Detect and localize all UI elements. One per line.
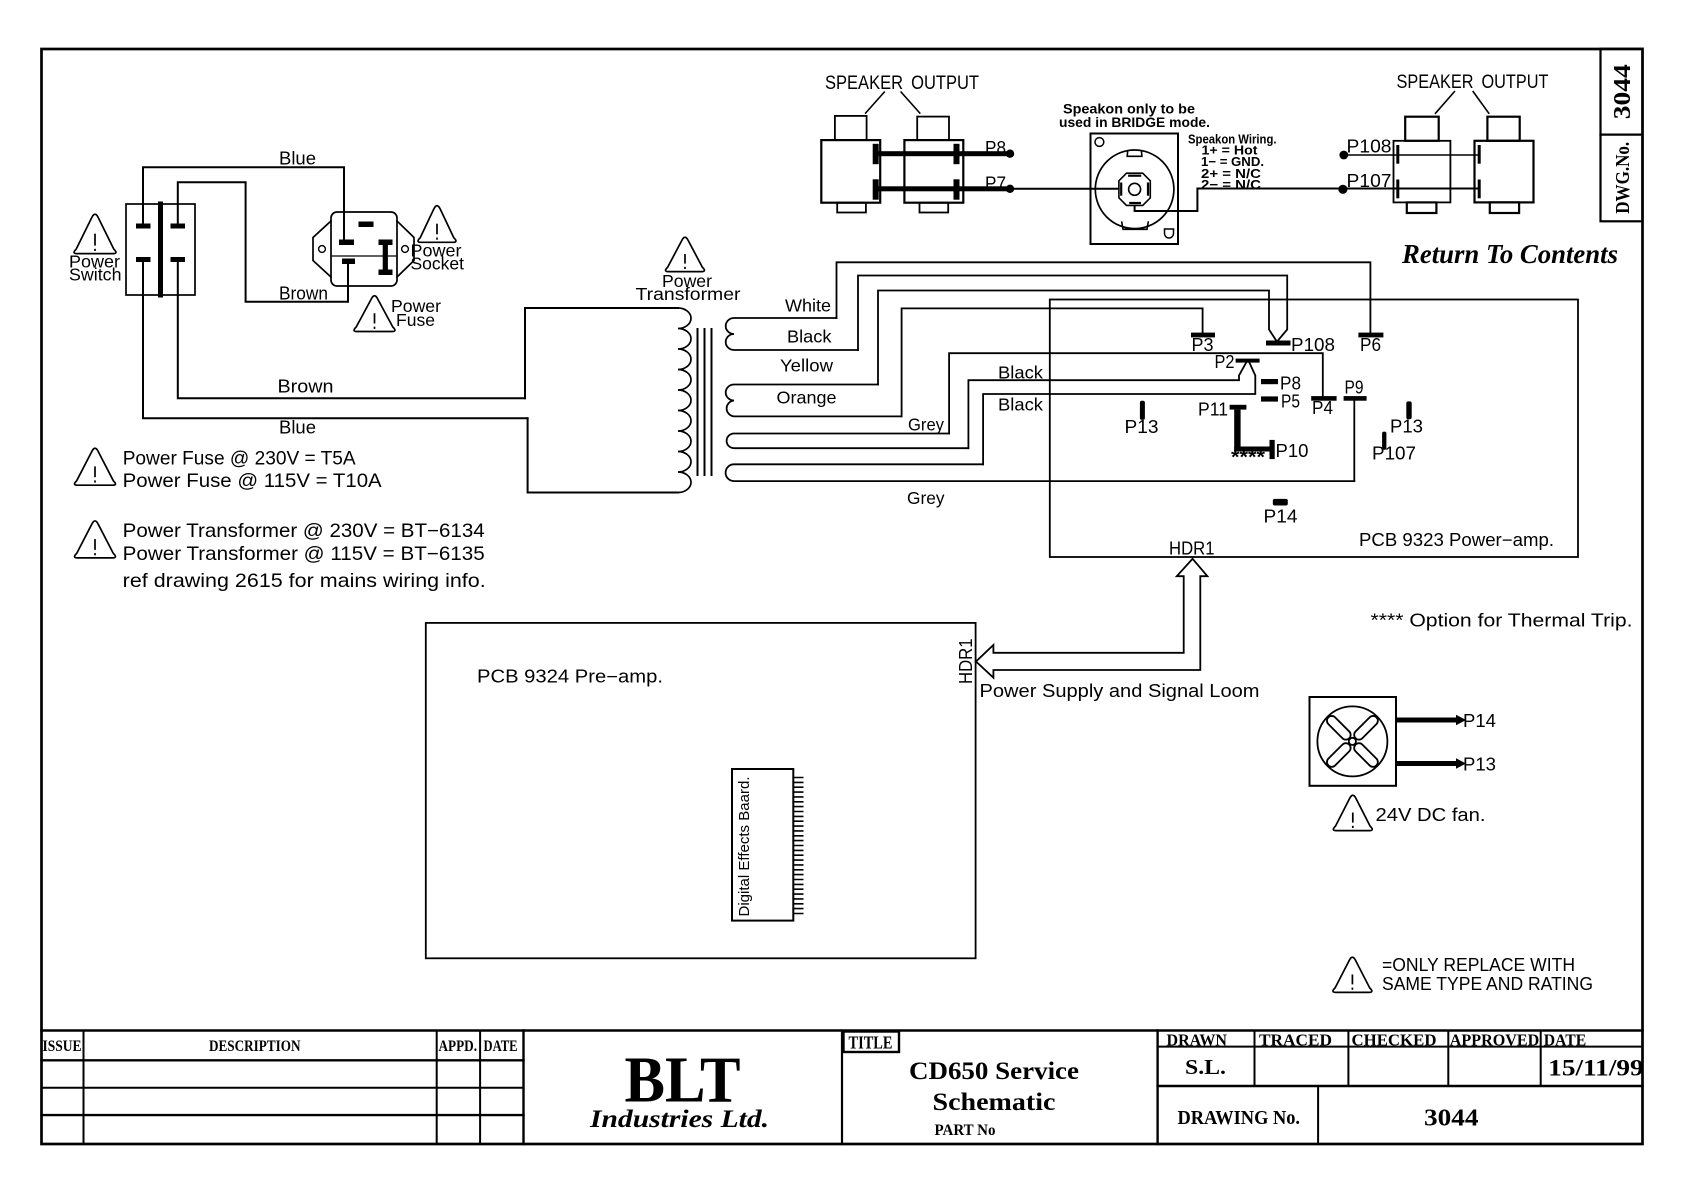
wire Orange to P3 <box>902 308 1203 416</box>
wire P7 to speakon <box>1014 188 1119 190</box>
wire Black to P2 left <box>968 363 1246 448</box>
title block <box>42 1031 1643 1145</box>
wire Black to P2 right <box>983 363 1255 465</box>
primary coil <box>678 308 691 493</box>
fan wire P14 <box>1396 715 1466 725</box>
svg-text:TITLE: TITLE <box>849 1033 893 1053</box>
svg-text:Power Supply and Signal Loom: Power Supply and Signal Loom <box>980 681 1260 701</box>
svg-text:ref drawing 2615 for mains wir: ref drawing 2615 for mains wiring info. <box>123 570 486 592</box>
svg-text:P11: P11 <box>1198 400 1228 420</box>
secondary winding 3 <box>727 434 969 449</box>
svg-text:Orange: Orange <box>777 388 837 408</box>
svg-text:Black: Black <box>787 327 832 347</box>
svg-text:DRAWN: DRAWN <box>1167 1031 1228 1050</box>
svg-text:P2: P2 <box>1215 352 1235 372</box>
svg-text:=ONLY REPLACE WITH: =ONLY REPLACE WITH <box>1382 954 1575 975</box>
jack J2 <box>904 117 963 213</box>
svg-text:Fuse: Fuse <box>396 310 435 330</box>
svg-text:P8: P8 <box>1280 374 1301 394</box>
svg-text:DATE: DATE <box>484 1038 518 1055</box>
power socket <box>313 212 414 286</box>
wire Grey to P9 <box>1353 399 1355 481</box>
svg-text:SPEAKER OUTPUT: SPEAKER OUTPUT <box>825 73 979 94</box>
TITLE box <box>844 1032 900 1053</box>
jack J3 <box>1394 117 1451 213</box>
warning triangle power socket <box>418 206 456 243</box>
svg-text:Switch: Switch <box>69 265 122 285</box>
svg-text:Return To Contents: Return To Contents <box>1401 239 1618 269</box>
svg-text:DESCRIPTION: DESCRIPTION <box>209 1038 301 1055</box>
wire Blue switch-socket <box>143 167 344 240</box>
svg-text:DWG.No.: DWG.No. <box>1613 142 1634 214</box>
svg-text:15/11/99: 15/11/99 <box>1548 1056 1644 1081</box>
svg-text:PCB 9323 Power−amp.: PCB 9323 Power−amp. <box>1359 530 1554 550</box>
svg-text:P6: P6 <box>1360 335 1381 355</box>
connector P3 <box>1191 333 1215 338</box>
leader lines right <box>1435 91 1489 114</box>
secondary winding 1 <box>726 318 858 350</box>
svg-text:APPROVED: APPROVED <box>1450 1031 1540 1050</box>
wire speakon to P107 <box>1135 189 1480 212</box>
wire Blue switch-transformer <box>143 262 528 418</box>
svg-text:HDR1: HDR1 <box>1169 539 1215 559</box>
wire Brown switch-fuse <box>178 182 348 301</box>
svg-text:P10: P10 <box>1276 441 1309 461</box>
jack J1 <box>821 116 880 213</box>
svg-text:Brown: Brown <box>279 283 328 304</box>
svg-text:Digital Effects Baard.: Digital Effects Baard. <box>737 777 753 917</box>
fan wire P13 <box>1396 758 1466 768</box>
svg-text:SAME TYPE AND RATING: SAME TYPE AND RATING <box>1382 973 1593 994</box>
svg-text:APPD.: APPD. <box>439 1038 478 1055</box>
connector P11 <box>1230 405 1247 410</box>
svg-text:Schematic: Schematic <box>933 1089 1056 1116</box>
svg-text:P108: P108 <box>1291 335 1335 355</box>
PCB 9324 pre-amp board <box>426 623 976 958</box>
power switch <box>126 204 195 295</box>
svg-text:P13: P13 <box>1125 417 1159 437</box>
svg-text:P9: P9 <box>1345 378 1364 398</box>
svg-text:P7: P7 <box>985 174 1006 194</box>
svg-text:Black: Black <box>998 395 1043 415</box>
connector P108 <box>1266 341 1291 346</box>
svg-text:Blue: Blue <box>279 148 316 169</box>
svg-text:ISSUE: ISSUE <box>43 1038 82 1055</box>
connector P13 tick right <box>1406 401 1411 419</box>
svg-text:Power Fuse @ 115V = T10A: Power Fuse @ 115V = T10A <box>123 470 382 492</box>
svg-text:used in BRIDGE mode.: used in BRIDGE mode. <box>1059 115 1210 130</box>
svg-text:Grey: Grey <box>908 415 944 435</box>
svg-text:****: **** <box>1231 448 1266 469</box>
connector P10 <box>1270 440 1275 459</box>
svg-text:Socket: Socket <box>411 254 465 274</box>
terminal bars J1 <box>873 144 879 164</box>
transformer core <box>697 329 699 475</box>
svg-text:P4: P4 <box>1312 398 1333 418</box>
svg-text:Power Transformer @ 115V = BT−: Power Transformer @ 115V = BT−6135 <box>123 543 485 565</box>
transformer primary <box>525 308 678 398</box>
DWG.No. box <box>1601 49 1643 222</box>
svg-text:Yellow: Yellow <box>780 356 833 376</box>
svg-text:Blue: Blue <box>279 417 316 438</box>
svg-text:P5: P5 <box>1281 392 1300 412</box>
bus P7 <box>875 186 1008 191</box>
warning triangle transformer note <box>75 521 116 558</box>
PCB 9323 power-amp board <box>1050 300 1578 558</box>
bus P8 <box>875 151 1008 156</box>
connector P4 <box>1311 396 1336 401</box>
connector P107 tick <box>1382 432 1386 450</box>
svg-text:Grey: Grey <box>907 488 945 508</box>
wire Brown switch-transformer <box>178 262 525 398</box>
secondary winding 2 <box>726 385 902 417</box>
svg-text:Power Fuse @ 230V = T5A: Power Fuse @ 230V = T5A <box>123 448 356 470</box>
svg-text:HDR1: HDR1 <box>956 639 976 685</box>
warning triangle power switch <box>74 214 116 253</box>
svg-text:P14: P14 <box>1463 711 1496 731</box>
wire Grey to P4 <box>949 353 1323 433</box>
wire Yellow to P108 right <box>878 291 1277 385</box>
wire White to P6 <box>837 262 1371 332</box>
svg-text:P107: P107 <box>1347 171 1392 191</box>
digital effects board <box>732 769 804 921</box>
svg-text:White: White <box>785 296 831 316</box>
wire P108 <box>1344 154 1479 156</box>
secondary winding 4 <box>726 464 1355 481</box>
jack J4 <box>1475 117 1534 213</box>
svg-text:24V DC fan.: 24V DC fan. <box>1376 804 1486 825</box>
connector P13 tick left <box>1140 401 1145 420</box>
svg-text:3044: 3044 <box>1610 64 1636 119</box>
junction dots P108 P107 <box>1338 151 1348 194</box>
svg-text:P14: P14 <box>1264 507 1298 527</box>
connector P14 <box>1273 499 1288 506</box>
warning triangle fuse note <box>75 448 116 485</box>
leader lines left <box>865 92 920 114</box>
warning triangle power fuse <box>354 296 395 332</box>
svg-text:Power Transformer @ 230V = BT−: Power Transformer @ 230V = BT−6134 <box>123 520 485 542</box>
svg-text:CHECKED: CHECKED <box>1352 1031 1437 1050</box>
svg-text:TRACED: TRACED <box>1259 1031 1332 1050</box>
svg-text:PCB 9324 Pre−amp.: PCB 9324 Pre−amp. <box>477 667 663 687</box>
connector P9 <box>1344 396 1367 401</box>
svg-text:SPEAKER OUTPUT: SPEAKER OUTPUT <box>1397 72 1549 93</box>
svg-text:3044: 3044 <box>1424 1106 1479 1132</box>
connector P8b <box>1261 379 1278 384</box>
svg-text:2− = N/C: 2− = N/C <box>1201 177 1262 192</box>
terminal bars J3 J4 <box>1398 145 1479 198</box>
loom arrow <box>976 559 1207 678</box>
svg-text:P3: P3 <box>1192 335 1214 355</box>
terminal bars J2 <box>954 144 960 164</box>
svg-text:P108: P108 <box>1347 137 1392 157</box>
svg-text:Brown: Brown <box>278 376 334 397</box>
svg-text:**** Option for Thermal Trip.: **** Option for Thermal Trip. <box>1371 611 1633 631</box>
svg-text:P8: P8 <box>985 138 1006 158</box>
warning triangle replace note <box>1333 957 1372 992</box>
svg-text:P13: P13 <box>1390 417 1423 437</box>
wire Black to P108 left <box>858 276 1287 351</box>
svg-text:CD650 Service: CD650 Service <box>909 1058 1079 1085</box>
svg-text:PART No: PART No <box>935 1122 996 1139</box>
speakon connector <box>1091 134 1179 245</box>
svg-text:DATE: DATE <box>1544 1031 1587 1050</box>
svg-text:P13: P13 <box>1463 755 1496 775</box>
svg-text:Black: Black <box>998 363 1043 383</box>
svg-text:S.L.: S.L. <box>1185 1055 1226 1079</box>
connector P5 <box>1261 396 1278 401</box>
svg-text:Transformer: Transformer <box>636 284 741 304</box>
warning triangle transformer <box>666 237 705 271</box>
24V DC fan <box>1310 697 1397 786</box>
svg-text:Industries Ltd.: Industries Ltd. <box>589 1106 769 1133</box>
connector P6 <box>1358 333 1383 338</box>
svg-text:P107: P107 <box>1372 444 1416 464</box>
warning triangle fan <box>1333 795 1372 830</box>
svg-text:DRAWING No.: DRAWING No. <box>1178 1107 1301 1129</box>
fuse in socket <box>379 240 393 276</box>
connector P2 <box>1236 359 1260 363</box>
